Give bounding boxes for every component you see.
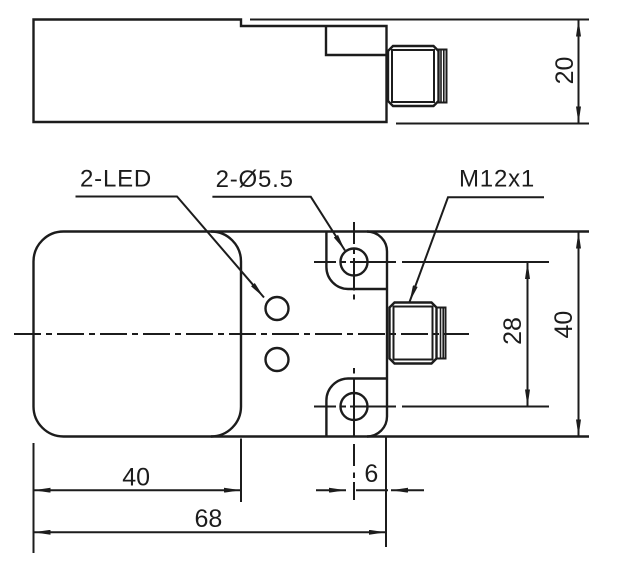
dim 68 dimension line bbox=[34, 531, 387, 533]
dim 28 dimension line bbox=[527, 262, 529, 407]
leader 2-LED bbox=[76, 197, 265, 298]
top hole vertical centerline bbox=[353, 222, 355, 300]
svg-text:6: 6 bbox=[364, 460, 378, 488]
dim 6 left outside arrow bbox=[316, 489, 346, 491]
svg-text:68: 68 bbox=[194, 505, 222, 533]
dim 40 right dimension line bbox=[578, 232, 580, 437]
mounting hole bottom bbox=[341, 393, 368, 420]
top hole horizontal centerline bbox=[314, 261, 396, 263]
dim 6 inner segment bbox=[356, 489, 388, 491]
bottom mounting boss outline bbox=[326, 379, 387, 437]
top view connector nut rectangle bbox=[326, 26, 387, 55]
front body top edge + right extension bbox=[64, 230, 590, 232]
leader 2-dia5.5 bbox=[212, 197, 345, 251]
LED hole lower bbox=[266, 348, 289, 371]
mounting hole top bbox=[341, 249, 368, 276]
top view body outline bbox=[34, 20, 387, 123]
svg-text:28: 28 bbox=[499, 317, 527, 345]
top view connector tip bbox=[439, 50, 447, 103]
top view tip inner lines bbox=[441, 50, 444, 103]
extension line face edge x241 bbox=[240, 439, 242, 503]
dim 40 bottom dimension line bbox=[34, 489, 242, 491]
svg-text:2-Ø5.5: 2-Ø5.5 bbox=[216, 166, 294, 193]
top mounting boss outline bbox=[326, 232, 387, 290]
front connector thread outer (chamfered) bbox=[390, 303, 437, 364]
top view thread inner rect bbox=[392, 50, 434, 102]
svg-text:20: 20 bbox=[551, 57, 579, 85]
front body left side rounded bbox=[34, 232, 64, 437]
main horizontal centerline bbox=[14, 333, 469, 335]
svg-text:40: 40 bbox=[550, 311, 578, 339]
svg-text:2-LED: 2-LED bbox=[80, 166, 152, 193]
leader M12x1 bbox=[410, 197, 545, 302]
svg-text:40: 40 bbox=[122, 464, 150, 492]
top view thread outer (chamfered) bbox=[388, 46, 439, 106]
svg-text:M12x1: M12x1 bbox=[459, 166, 535, 193]
front connector thread inner rect bbox=[394, 307, 433, 360]
dim 6 right outside arrow bbox=[391, 489, 424, 491]
LED hole upper bbox=[266, 297, 289, 320]
front connector tip bbox=[437, 308, 446, 359]
dim 28 top extension line bbox=[402, 261, 549, 263]
sensing face right edge bbox=[211, 232, 241, 437]
front body right side rounded bbox=[367, 232, 387, 437]
dim 28 bottom extension line bbox=[402, 406, 549, 408]
dim 20 dimension line bbox=[578, 20, 580, 124]
extension line left x33 bbox=[33, 443, 35, 553]
bottom hole vertical centerline bbox=[353, 368, 355, 500]
front connector tip inner lines bbox=[441, 308, 444, 359]
bottom hole horizontal centerline bbox=[314, 406, 396, 408]
dim 20 top extension line bbox=[250, 19, 589, 21]
front body bottom edge + right extension bbox=[64, 435, 590, 437]
dim 20 bottom extension line bbox=[396, 123, 589, 125]
extension line right edge x386 bbox=[385, 437, 387, 547]
